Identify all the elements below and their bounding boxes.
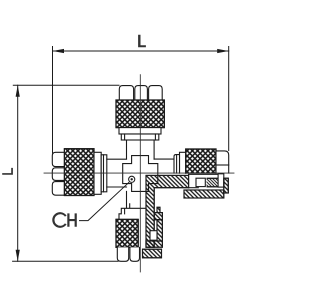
top arm nut base step (tier 2)	[121, 134, 159, 140]
dimension L left: dimension line	[17, 85, 19, 261]
right arm flute end (top half)	[216, 151, 229, 173]
top arm flute arch 1	[119, 86, 133, 100]
dimension L top: left arrow	[53, 49, 65, 53]
bottom arm neck (left half)	[116, 191, 146, 219]
right arm neck top edge	[154, 158, 174, 160]
right arm + bottom arm section: L-shaped port wall band	[146, 175, 189, 247]
left arm nut base step (tier 2)	[101, 155, 107, 192]
right arm section: nut bottom wall	[184, 190, 224, 198]
dimension L left: bottom arrow	[16, 250, 20, 261]
extension line top of left dimension	[13, 84, 119, 86]
right arm step1 tier1 (external top half)	[180, 152, 186, 173]
right arm section: white zone with tube ring	[189, 174, 207, 187]
dimension L top: dimension line	[53, 50, 229, 52]
left arm nut base step (tier 1)	[94, 152, 101, 194]
tube hole circle	[129, 176, 135, 182]
bottom arm section: nut bottom wall	[143, 249, 162, 258]
label L top	[138, 35, 146, 48]
right arm step1 tier2	[174, 155, 180, 174]
bottom arm flute arch 1	[117, 247, 128, 261]
bottom arm section: nut flange	[154, 207, 162, 219]
right arm section: end cap outer wall	[224, 178, 229, 193]
left arm flute arch 2	[52, 168, 64, 181]
left arm flute arch 1	[52, 152, 64, 166]
vertical centerline	[139, 75, 141, 272]
dimension L top: right arrow	[217, 49, 229, 53]
horizontal centerline	[44, 172, 234, 174]
top arm neck	[127, 140, 155, 159]
bottom arm section: lower block	[146, 241, 162, 247]
right arm flute arch line	[216, 164, 229, 166]
bottom arm section: collet ring	[150, 231, 157, 241]
label L left (rotated)	[2, 168, 13, 175]
bottom arm section: nut outer wall strip	[157, 220, 162, 241]
left arm neck	[107, 159, 127, 187]
top arm nut base step (tier 1)	[119, 128, 161, 134]
top arm flute arch 2	[135, 86, 148, 100]
left arm knurled nut	[64, 149, 94, 196]
extension line left of top dimension	[52, 47, 54, 154]
left arm flute arch 3	[52, 182, 64, 196]
dimension L left: top arrow	[16, 85, 20, 97]
label CH	[52, 212, 77, 228]
extension line bottom of left dimension	[13, 260, 118, 262]
right arm section: collet block	[206, 178, 225, 187]
CH leader line	[80, 183, 129, 221]
body octagon boss	[123, 156, 158, 192]
top arm knurled nut	[116, 100, 164, 128]
bottom arm flute arch 2	[130, 247, 140, 261]
right arm knurled nut (top half)	[186, 149, 216, 173]
extension line right of top dimension	[228, 47, 230, 151]
top arm flute arch 3	[149, 86, 163, 100]
right arm section: end cap inner wall (white strip)	[218, 174, 224, 187]
bottom arm knurled nut (left half)	[116, 219, 138, 247]
